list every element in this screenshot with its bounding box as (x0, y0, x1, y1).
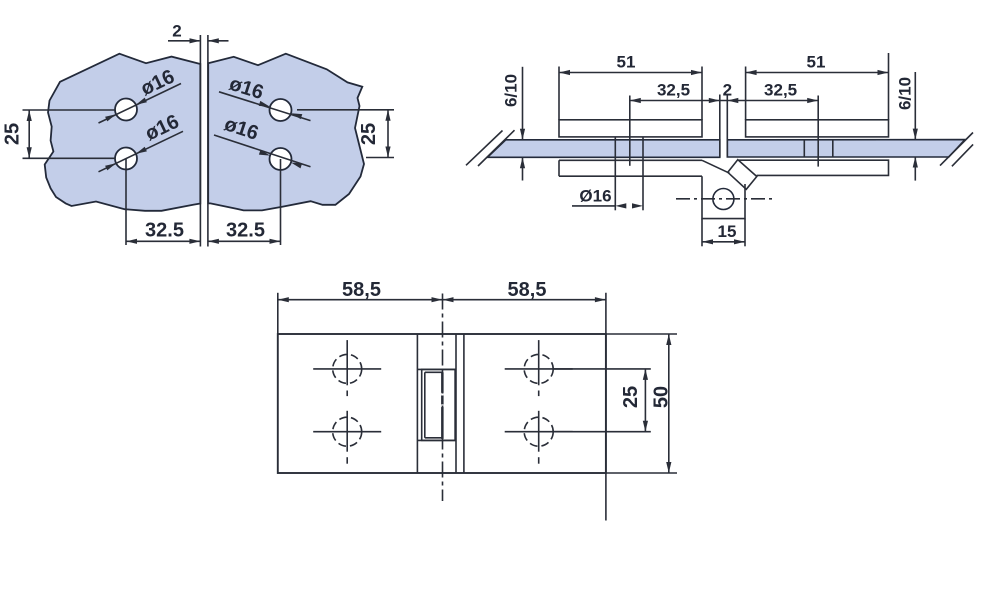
hole C top-right (505, 340, 573, 396)
hole R1 top-right panel (270, 99, 292, 121)
dimension 51 left (559, 53, 702, 76)
dimension 25 vertical (620, 369, 648, 432)
gap extension line right (207, 35, 209, 247)
extension 51 left-b (701, 67, 703, 120)
svg-text:32,5: 32,5 (764, 81, 797, 100)
svg-text:50: 50 (650, 386, 672, 408)
dimension 32.5 bottom-right (208, 220, 281, 244)
dimension 50 vertical (650, 334, 672, 473)
hole R2 bottom-right panel (270, 148, 292, 170)
left edge extension up (277, 293, 279, 334)
cartridge inner bottom line (425, 437, 442, 439)
rotated leaf line (702, 160, 730, 173)
knuckle band line c (455, 334, 457, 473)
glass break slash right outer (952, 144, 973, 166)
dimension 58,5 left and right (278, 279, 606, 302)
svg-text:32.5: 32.5 (145, 220, 184, 242)
hinge body rectangle (278, 334, 606, 473)
pivot circle (713, 189, 734, 210)
svg-text:6/10: 6/10 (896, 77, 915, 110)
dimension 51 right (746, 53, 889, 76)
glass strip left segment (488, 140, 720, 158)
center axis dash-dot (442, 294, 444, 502)
dimension 6/10 right (896, 72, 918, 181)
svg-text:6/10: 6/10 (502, 74, 521, 107)
extension line hole R2 down (280, 159, 282, 245)
hole A top-left (313, 340, 381, 396)
leader o16 hole L1 (99, 66, 182, 123)
dimension O16 section (572, 187, 643, 209)
dimension 32.5 bottom-left (126, 220, 200, 244)
gap extension right (726, 95, 728, 158)
dimension 2 top (168, 22, 229, 44)
svg-text:25: 25 (2, 123, 24, 145)
upper plate left (559, 120, 702, 137)
extension line hole L2 down (125, 159, 127, 246)
svg-text:Ø16: Ø16 (579, 187, 611, 206)
glass panel right (208, 54, 364, 211)
glass strip right segment (727, 140, 965, 157)
cartridge inner left line (424, 372, 426, 438)
leader o16 hole R1 (219, 73, 311, 121)
extension 50 bottom (606, 472, 677, 474)
lower plate right (739, 160, 889, 175)
hole L2 bottom-left panel (115, 148, 137, 170)
cartridge glass edge thick (441, 372, 444, 439)
cartridge bottom line (417, 439, 455, 441)
dimension 32,5 left and 2 and 32,5 right (630, 81, 818, 104)
svg-text:58,5: 58,5 (508, 279, 547, 301)
glass break slash left cut (478, 130, 515, 166)
extension 50 top (606, 333, 677, 335)
screw hole center extension left (629, 96, 631, 166)
right edge extension full (605, 293, 607, 521)
screw hole center extension right (817, 96, 819, 167)
lower plate left (559, 160, 702, 176)
extension 15 right (744, 219, 746, 247)
svg-text:25: 25 (358, 123, 380, 145)
extension 25 bottom (554, 431, 651, 433)
glass break slash right cut (940, 133, 973, 166)
hole B bottom-left (313, 411, 381, 464)
gap extension left (719, 95, 721, 158)
svg-text:2: 2 (172, 22, 181, 41)
svg-text:58,5: 58,5 (342, 279, 381, 301)
hole D bottom-right (505, 411, 573, 464)
svg-text:51: 51 (807, 53, 826, 72)
dimension 15 (702, 222, 745, 244)
extension 25 top (554, 368, 651, 370)
cartridge outer rect (422, 369, 455, 440)
extension 15 left (701, 219, 703, 247)
svg-text:15: 15 (718, 222, 737, 241)
upper plate right (746, 120, 889, 137)
svg-text:2: 2 (723, 81, 732, 100)
extension 51 left-a (558, 67, 560, 120)
svg-text:32,5: 32,5 (657, 81, 690, 100)
leader o16 hole R2 (214, 113, 311, 168)
hole L1 top-left panel (115, 99, 137, 121)
screw hole edge right-b (832, 140, 834, 157)
pivot centerline (676, 198, 775, 200)
leader o16 hole L2 (99, 111, 184, 172)
dimension 25 right (297, 110, 394, 158)
extension 51 right-a (745, 67, 747, 120)
cartridge top line (417, 368, 455, 370)
knuckle band line a (416, 334, 418, 473)
knuckle band line d (463, 334, 465, 473)
svg-text:32.5: 32.5 (226, 220, 265, 242)
gap extension line left (199, 35, 201, 247)
glass break slash left outer (466, 131, 503, 166)
glass panel left (45, 54, 201, 211)
extension 51 right-b (888, 53, 890, 120)
rotated leaf plate (728, 160, 757, 190)
dimension 25 left (2, 110, 116, 158)
svg-text:25: 25 (620, 386, 642, 408)
screw hole edge right-a (803, 140, 805, 157)
screw hole edge left-a (614, 137, 616, 210)
knuckle body (702, 176, 745, 218)
screw hole edge left-b (642, 137, 644, 210)
cartridge inner top line (425, 371, 442, 373)
svg-text:51: 51 (617, 53, 636, 72)
dimension 6/10 left (502, 67, 526, 181)
